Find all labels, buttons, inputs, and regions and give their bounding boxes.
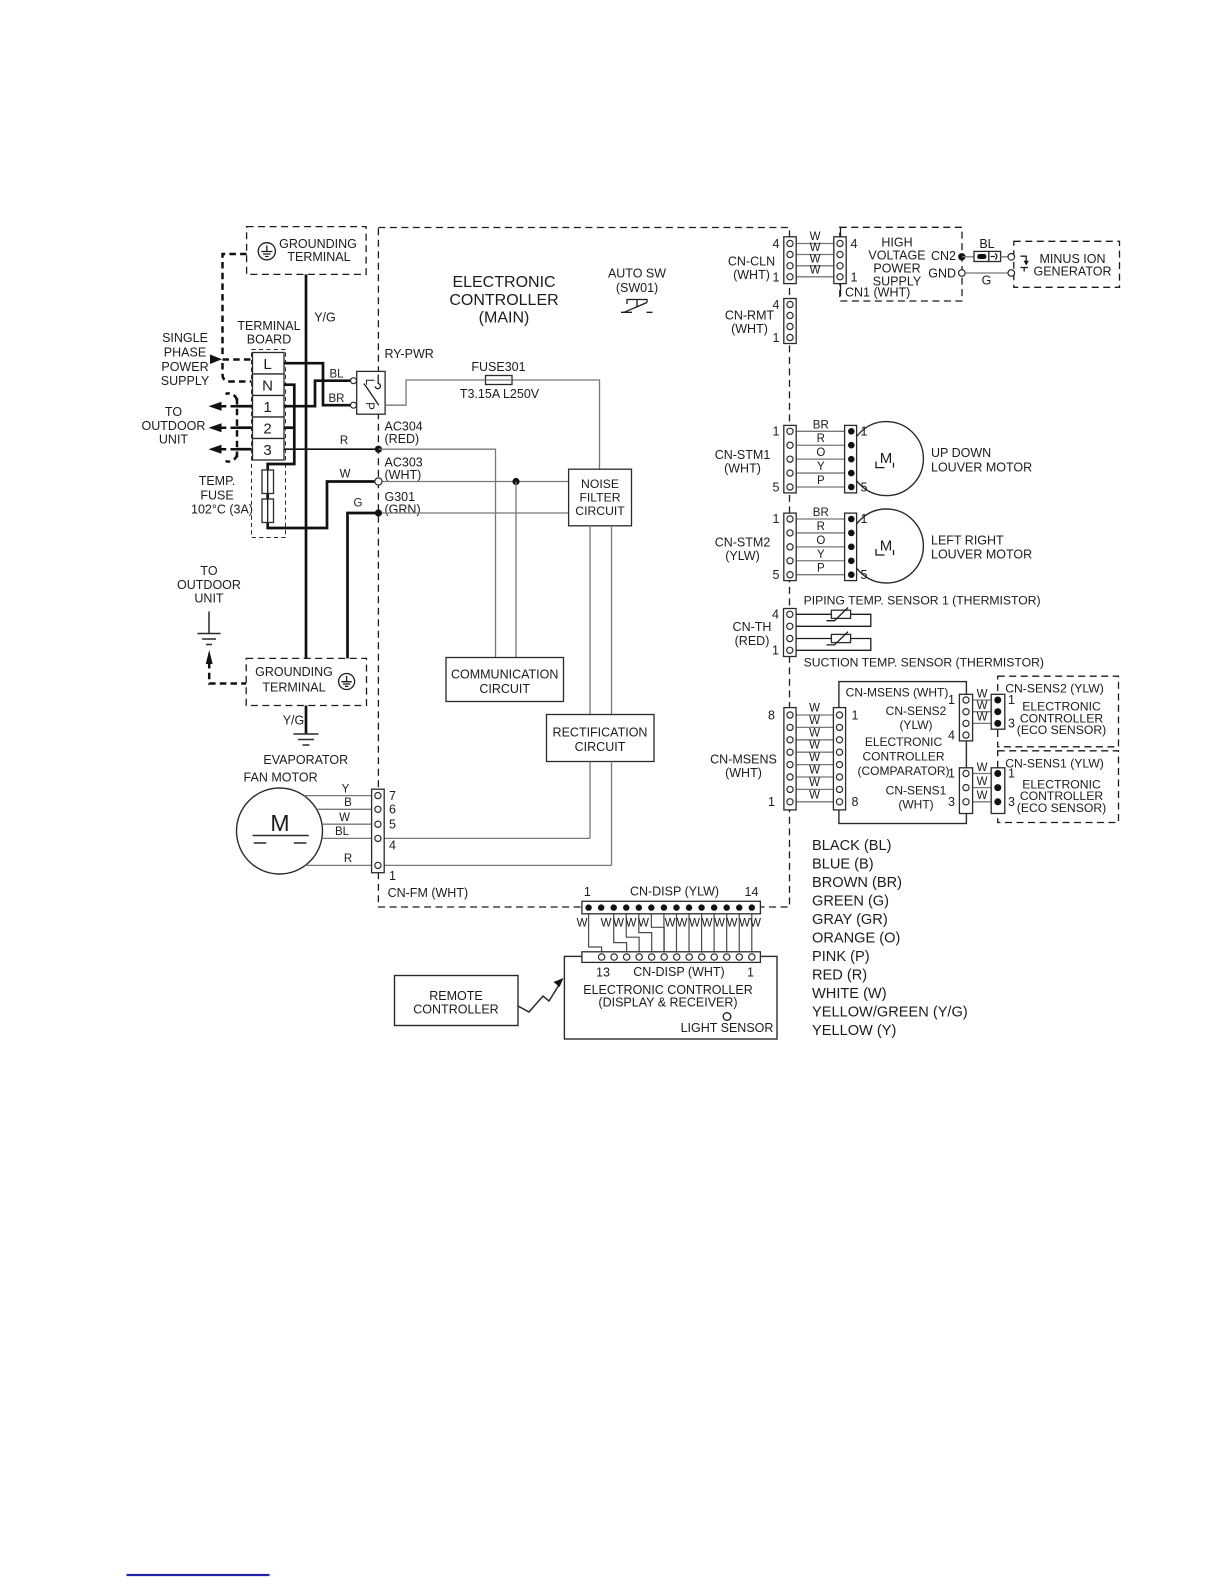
connector CN-SENS2 eco side <box>991 694 1005 729</box>
svg-text:(ECO SENSOR): (ECO SENSOR) <box>1017 723 1106 737</box>
svg-text:(WHT): (WHT) <box>733 268 770 282</box>
svg-text:W: W <box>689 918 700 930</box>
svg-text:W: W <box>809 765 820 777</box>
svg-text:CONTROLLER: CONTROLLER <box>413 1003 498 1017</box>
svg-text:1: 1 <box>389 869 396 883</box>
svg-text:BROWN (BR): BROWN (BR) <box>812 875 902 891</box>
svg-text:(DISPLAY & RECEIVER): (DISPLAY & RECEIVER) <box>598 996 737 1010</box>
svg-text:CN-FM (WHT): CN-FM (WHT) <box>388 886 469 900</box>
wire CN2 to ion connector <box>962 256 974 258</box>
node minus ion pin 1 <box>1008 253 1015 260</box>
svg-text:W: W <box>613 918 624 930</box>
thermistor loop 2 <box>796 639 871 651</box>
svg-text:1: 1 <box>851 271 858 285</box>
svg-text:OUTDOOR: OUTDOOR <box>177 578 241 592</box>
svg-text:M: M <box>270 810 289 836</box>
svg-text:W: W <box>809 777 820 789</box>
svg-text:LOUVER MOTOR: LOUVER MOTOR <box>931 548 1032 562</box>
svg-text:Y/G: Y/G <box>283 714 305 728</box>
svg-text:AUTO SW: AUTO SW <box>608 267 666 281</box>
svg-text:(MAIN): (MAIN) <box>479 310 530 327</box>
wire B fan motor <box>317 808 375 810</box>
svg-text:1: 1 <box>948 766 955 780</box>
svg-text:P: P <box>817 475 825 487</box>
svg-text:L: L <box>263 356 271 373</box>
svg-text:GROUNDING: GROUNDING <box>255 665 333 679</box>
wire stubs terminals 1-3 to cable bundle <box>237 405 252 408</box>
svg-text:W: W <box>977 712 988 724</box>
svg-text:SUPPLY: SUPPLY <box>161 374 210 388</box>
wire GND to generator <box>965 272 1008 274</box>
wires CN-DISP YLW to CN-DISP WHT <box>589 914 602 952</box>
svg-text:TERMINAL: TERMINAL <box>262 681 325 695</box>
svg-text:W: W <box>809 715 820 727</box>
svg-text:CN-TH: CN-TH <box>733 620 772 634</box>
svg-text:W: W <box>638 918 649 930</box>
svg-text:7: 7 <box>389 789 396 803</box>
node AC303 open terminal <box>375 478 382 485</box>
svg-text:(SW01): (SW01) <box>616 281 658 295</box>
svg-text:BOARD: BOARD <box>247 333 291 347</box>
svg-text:FAN MOTOR: FAN MOTOR <box>244 771 318 785</box>
svg-text:5: 5 <box>773 568 780 582</box>
svg-text:CIRCUIT: CIRCUIT <box>575 504 625 518</box>
svg-text:B: B <box>344 797 352 809</box>
svg-text:1: 1 <box>773 424 780 438</box>
svg-text:T3.15A L250V: T3.15A L250V <box>460 387 540 401</box>
svg-text:CN1 (WHT): CN1 (WHT) <box>845 286 910 300</box>
svg-text:4: 4 <box>773 237 780 251</box>
connector CN-SENS2 board side <box>959 694 972 741</box>
svg-text:R: R <box>817 433 825 445</box>
connector CN-DISP (WHT) <box>582 952 761 963</box>
svg-text:3: 3 <box>1008 717 1015 731</box>
svg-text:W: W <box>810 242 821 254</box>
svg-text:CN-MSENS: CN-MSENS <box>710 753 777 767</box>
svg-text:TERMINAL: TERMINAL <box>237 319 300 333</box>
terminal board dashed outline <box>252 350 286 538</box>
wires CN-STM2 to louver motor <box>796 518 848 520</box>
svg-text:W: W <box>340 469 351 481</box>
svg-text:BL: BL <box>979 237 994 251</box>
arrow at supply junction <box>210 355 222 365</box>
wires CN-STM1 to louver motor <box>796 430 848 432</box>
svg-text:W: W <box>977 762 988 774</box>
svg-text:6: 6 <box>389 803 396 817</box>
svg-text:(RED): (RED) <box>735 634 770 648</box>
svg-text:W: W <box>750 918 761 930</box>
svg-text:4: 4 <box>948 728 955 742</box>
svg-text:W: W <box>665 918 676 930</box>
svg-text:W: W <box>702 918 713 930</box>
wire rectification to CN-FM pin 1 <box>611 762 613 866</box>
eco sensor dashed box CN-SENS2 (YLW) <box>998 676 1119 747</box>
mating arrows <box>1021 256 1027 262</box>
svg-text:(WHT): (WHT) <box>724 461 761 475</box>
svg-text:1: 1 <box>773 331 780 345</box>
svg-text:UNIT: UNIT <box>194 592 224 606</box>
svg-text:CONTROLLER: CONTROLLER <box>862 750 944 764</box>
svg-text:TEMP.: TEMP. <box>199 474 236 488</box>
svg-text:1: 1 <box>861 424 868 438</box>
svg-text:EVAPORATOR: EVAPORATOR <box>263 753 348 767</box>
svg-text:CN-DISP (YLW): CN-DISP (YLW) <box>630 885 719 899</box>
svg-text:W: W <box>810 264 821 276</box>
svg-text:14: 14 <box>745 885 759 899</box>
wire dashed from grounding terminal to supply junction <box>223 254 247 355</box>
fuse FUSE301 body <box>486 376 513 385</box>
relay pin BL <box>351 378 357 384</box>
svg-text:POWER: POWER <box>161 360 208 374</box>
wire Y/G grounding terminal 1 to 2 <box>305 274 308 658</box>
svg-text:PINK (P): PINK (P) <box>812 949 870 965</box>
wire G301 to grounding terminal <box>348 513 379 658</box>
svg-text:WHITE (W): WHITE (W) <box>812 986 887 1002</box>
svg-text:ORANGE (O): ORANGE (O) <box>812 931 900 947</box>
svg-text:1: 1 <box>263 399 271 416</box>
svg-text:5: 5 <box>861 568 868 582</box>
electronic controller (main) dashed outline <box>378 228 789 908</box>
svg-text:BLUE (B): BLUE (B) <box>812 857 874 873</box>
svg-text:P: P <box>363 402 375 410</box>
svg-text:VOLTAGE: VOLTAGE <box>868 249 925 263</box>
wire dashed supply to terminal L <box>223 358 252 361</box>
svg-text:TERMINAL: TERMINAL <box>287 250 350 264</box>
svg-text:OUTDOOR: OUTDOOR <box>142 419 206 433</box>
junction dot to communication circuit <box>512 478 519 485</box>
svg-text:O: O <box>816 447 825 459</box>
node AC304 junction dot <box>375 446 382 453</box>
svg-text:4: 4 <box>772 608 779 622</box>
wire N to terminal 2 jumper and temp fuse feed <box>268 385 295 470</box>
wire AC303 to noise filter <box>378 481 568 483</box>
wire relay to noise filter via FUSE301 <box>385 380 599 469</box>
electronic controller (comparator) box <box>839 682 967 824</box>
node GND open circle <box>959 270 966 277</box>
signal zigzag arrow <box>518 983 561 1013</box>
rectification circuit box <box>547 715 655 762</box>
svg-text:4: 4 <box>389 839 396 853</box>
svg-text:LEFT RIGHT: LEFT RIGHT <box>931 534 1004 548</box>
ground symbol in circle <box>258 243 275 260</box>
svg-text:CIRCUIT: CIRCUIT <box>575 740 626 754</box>
wire rectification to CN-FM pin 4 <box>589 762 591 839</box>
svg-text:(RED): (RED) <box>385 432 420 446</box>
wire through temperature fuses to AC303 <box>268 482 379 529</box>
svg-text:BL: BL <box>329 369 344 381</box>
connector CN-DISP (YLW) <box>582 901 761 914</box>
svg-text:P: P <box>817 563 825 575</box>
connector CN-STM1 <box>784 425 796 493</box>
svg-text:1: 1 <box>861 512 868 526</box>
svg-text:W: W <box>977 790 988 802</box>
wires CN-CLN to CN1 <box>796 243 834 245</box>
svg-text:SINGLE: SINGLE <box>162 331 208 345</box>
relay RY-PWR body <box>357 371 385 414</box>
svg-text:3: 3 <box>948 795 955 809</box>
svg-text:M: M <box>880 450 893 467</box>
svg-text:W: W <box>809 703 820 715</box>
svg-text:GREEN (G): GREEN (G) <box>812 894 889 910</box>
svg-text:(COMPARATOR): (COMPARATOR) <box>858 764 950 778</box>
svg-text:1: 1 <box>852 709 859 723</box>
connector CN-STM2 <box>784 513 796 581</box>
svg-text:5: 5 <box>389 818 396 832</box>
svg-text:SUCTION TEMP. SENSOR (THERMIST: SUCTION TEMP. SENSOR (THERMISTOR) <box>804 656 1044 670</box>
svg-text:Y: Y <box>342 784 350 796</box>
ion feed connector symbol <box>974 251 1001 261</box>
relay pin BR <box>351 402 357 408</box>
svg-text:GROUNDING: GROUNDING <box>279 237 357 251</box>
wire Y fan motor <box>304 795 375 797</box>
svg-text:UNIT: UNIT <box>159 433 189 447</box>
svg-text:(YLW): (YLW) <box>899 718 932 732</box>
electronic controller (display & receiver) box <box>564 956 777 1039</box>
svg-text:CN-SENS1 (YLW): CN-SENS1 (YLW) <box>1005 756 1104 770</box>
svg-text:CONTROLLER: CONTROLLER <box>449 292 558 309</box>
grounding terminal 2 dashed box <box>246 658 366 705</box>
svg-text:102°C (3A): 102°C (3A) <box>191 503 253 517</box>
louver motor circle CN-STM2 <box>849 509 923 583</box>
remote controller box <box>395 976 519 1026</box>
svg-text:POWER: POWER <box>873 262 920 276</box>
svg-text:1: 1 <box>772 644 779 658</box>
svg-text:W: W <box>809 740 820 752</box>
wire noise filter to rectification 2 <box>611 526 613 715</box>
svg-text:(YLW): (YLW) <box>725 549 760 563</box>
svg-text:YELLOW (Y): YELLOW (Y) <box>812 1023 896 1039</box>
relay contact <box>375 375 380 389</box>
svg-text:W: W <box>809 789 820 801</box>
svg-text:CIRCUIT: CIRCUIT <box>479 682 530 696</box>
svg-text:W: W <box>577 918 588 930</box>
cable bundle dashed <box>236 398 239 458</box>
svg-text:1: 1 <box>773 512 780 526</box>
svg-text:GENERATOR: GENERATOR <box>1033 265 1111 279</box>
svg-text:CN-MSENS (WHT): CN-MSENS (WHT) <box>846 686 949 700</box>
connector CN-MSENS (board) <box>833 708 845 810</box>
svg-text:3: 3 <box>1008 795 1015 809</box>
svg-text:W: W <box>809 752 820 764</box>
svg-text:1: 1 <box>768 795 775 809</box>
svg-text:1: 1 <box>948 693 955 707</box>
svg-text:FILTER: FILTER <box>579 491 620 505</box>
CN-SENS1 connectors <box>973 773 992 775</box>
svg-text:CN-STM2: CN-STM2 <box>715 536 771 550</box>
wire ion connector to generator <box>1001 256 1008 258</box>
footer rule <box>127 1574 270 1576</box>
svg-text:W: W <box>977 776 988 788</box>
svg-text:YELLOW/GREEN (Y/G): YELLOW/GREEN (Y/G) <box>812 1005 968 1021</box>
svg-text:GRAY (GR): GRAY (GR) <box>812 912 888 928</box>
wire BL CN-FM pin4 to rectification <box>381 837 590 839</box>
connector CN-MSENS (left) <box>784 708 796 810</box>
wire W fan motor <box>322 823 375 825</box>
svg-text:G: G <box>982 274 992 288</box>
svg-text:BL: BL <box>335 826 350 838</box>
svg-text:(WHT): (WHT) <box>731 322 768 336</box>
svg-text:8: 8 <box>852 795 859 809</box>
svg-text:RY-PWR: RY-PWR <box>385 347 434 361</box>
svg-text:CN-CLN: CN-CLN <box>728 255 775 269</box>
wire terminal 1 to relay BL pin <box>284 381 351 407</box>
wire G301 to noise filter <box>378 512 568 514</box>
noise filter circuit box <box>569 469 632 526</box>
svg-text:W: W <box>677 918 688 930</box>
svg-text:4: 4 <box>851 237 858 251</box>
wires CN-SENS2 to eco sensor <box>973 699 992 701</box>
svg-text:W: W <box>727 918 738 930</box>
svg-text:BLACK (BL): BLACK (BL) <box>812 838 891 854</box>
motor connector CN-STM1 <box>845 425 857 493</box>
terminal cells L N 1 2 3 <box>253 353 285 375</box>
svg-text:COMMUNICATION: COMMUNICATION <box>451 668 558 682</box>
ground symbol in circle 2 <box>339 674 355 690</box>
motor connector CN-STM2 <box>845 513 857 581</box>
connector CN-TH <box>784 609 797 657</box>
svg-text:PHASE: PHASE <box>164 346 206 360</box>
wire BL fan motor <box>322 837 375 839</box>
relay blade <box>364 384 379 406</box>
connector CN-FM <box>372 789 385 873</box>
svg-text:W: W <box>977 700 988 712</box>
svg-text:2: 2 <box>263 420 271 437</box>
svg-text:FUSE: FUSE <box>200 489 233 503</box>
svg-text:HIGH: HIGH <box>881 236 912 250</box>
svg-text:CN-SENS1: CN-SENS1 <box>886 784 947 798</box>
svg-text:LOUVER MOTOR: LOUVER MOTOR <box>931 460 1032 474</box>
temperature fuse body 1 <box>262 470 274 494</box>
svg-text:FUSE301: FUSE301 <box>471 360 525 374</box>
svg-text:(WHT): (WHT) <box>725 766 762 780</box>
svg-text:(WHT): (WHT) <box>385 468 422 482</box>
svg-text:5: 5 <box>861 481 868 495</box>
svg-text:W: W <box>714 918 725 930</box>
svg-text:R: R <box>340 435 348 447</box>
svg-text:1: 1 <box>747 966 754 980</box>
svg-text:BR: BR <box>813 507 829 519</box>
wire R fan motor <box>305 864 375 866</box>
wire AC304 to communication circuit <box>378 449 495 657</box>
fan motor M1 circle <box>237 788 323 874</box>
thermistor RT1 symbol <box>831 610 850 618</box>
svg-text:W: W <box>626 918 637 930</box>
svg-text:W: W <box>601 918 612 930</box>
svg-text:1: 1 <box>773 271 780 285</box>
svg-text:BR: BR <box>813 419 829 431</box>
svg-text:CN-RMT: CN-RMT <box>725 309 775 323</box>
dashed arrow to grounding terminal 2 <box>206 650 213 664</box>
svg-text:TO: TO <box>200 564 217 578</box>
svg-text:(ECO SENSOR): (ECO SENSOR) <box>1017 801 1106 815</box>
temperature fuse body 2 <box>262 499 274 523</box>
switch SW01 symbol <box>627 300 647 308</box>
earth ground symbol (evaporator) <box>294 734 319 745</box>
louver motor circle CN-STM1 <box>849 422 923 496</box>
svg-text:GND: GND <box>928 267 956 281</box>
connector CN1 <box>840 228 842 237</box>
svg-text:N: N <box>262 377 273 394</box>
svg-text:G: G <box>354 498 363 510</box>
svg-text:LIGHT SENSOR: LIGHT SENSOR <box>681 1021 774 1035</box>
svg-text:REMOTE: REMOTE <box>429 989 482 1003</box>
wire grounding terminal 2 to earth <box>305 706 308 735</box>
svg-text:ELECTRONIC: ELECTRONIC <box>452 274 555 291</box>
wires CN-MSENS <box>796 714 833 716</box>
svg-text:13: 13 <box>596 966 610 980</box>
connector CN-CLN <box>784 237 796 284</box>
svg-text:Y: Y <box>817 461 825 473</box>
svg-text:O: O <box>816 535 825 547</box>
wire R terminal 3 to AC304 node <box>284 448 378 450</box>
wire noise filter to rectification 1 <box>589 526 591 715</box>
svg-text:UP DOWN: UP DOWN <box>931 446 991 460</box>
svg-text:R: R <box>344 853 352 865</box>
minus ion generator dashed box (drawn early) <box>1014 241 1120 287</box>
wire L to relay BR pin <box>284 363 351 405</box>
svg-text:W: W <box>977 688 988 700</box>
svg-text:W: W <box>809 727 820 739</box>
svg-text:8: 8 <box>768 709 775 723</box>
svg-text:TO: TO <box>165 405 182 419</box>
eco sensor dashed box CN-SENS1 <box>998 751 1119 823</box>
svg-text:W: W <box>739 918 750 930</box>
wire dashed supply to terminal N <box>223 363 252 382</box>
svg-text:Y: Y <box>817 549 825 561</box>
svg-text:W: W <box>339 812 350 824</box>
svg-text:NOISE: NOISE <box>581 477 619 491</box>
earth ground symbol (outdoor) <box>198 612 221 645</box>
wire R CN-FM pin1 to rectification <box>381 864 612 866</box>
node minus ion pin 2 <box>1008 270 1015 277</box>
node CN2 dot <box>958 253 965 260</box>
svg-text:M: M <box>880 538 893 555</box>
svg-text:BR: BR <box>329 393 345 405</box>
svg-text:5: 5 <box>773 481 780 495</box>
svg-text:CN2: CN2 <box>931 249 956 263</box>
svg-text:RED (R): RED (R) <box>812 968 867 984</box>
node G301 junction dot <box>375 509 382 516</box>
svg-text:R: R <box>817 521 825 533</box>
svg-text:PIPING TEMP. SENSOR 1 (THERMIS: PIPING TEMP. SENSOR 1 (THERMISTOR) <box>804 594 1041 608</box>
thermistor loop 1 <box>796 614 871 626</box>
svg-text:CN-SENS2 (YLW): CN-SENS2 (YLW) <box>1005 682 1104 696</box>
connector CN-RMT <box>784 299 796 344</box>
svg-text:ELECTRONIC: ELECTRONIC <box>865 735 943 749</box>
svg-text:3: 3 <box>263 442 271 459</box>
svg-text:CN-SENS2: CN-SENS2 <box>886 704 947 718</box>
svg-text:(WHT): (WHT) <box>898 798 933 812</box>
svg-text:RECTIFICATION: RECTIFICATION <box>553 726 648 740</box>
dashed arrows to outdoor unit <box>221 405 237 408</box>
svg-text:1: 1 <box>584 885 591 899</box>
grounding terminal (top) dashed box <box>247 227 367 275</box>
svg-text:Y/G: Y/G <box>314 311 336 325</box>
communication circuit box <box>446 658 564 702</box>
svg-text:CN-DISP (WHT): CN-DISP (WHT) <box>633 965 724 979</box>
svg-text:CN-STM1: CN-STM1 <box>715 448 771 462</box>
thermistor RT2 symbol <box>831 634 850 642</box>
high voltage power supply dashed box <box>840 227 962 301</box>
svg-text:(GRN): (GRN) <box>385 503 421 517</box>
light sensor circle <box>723 1013 731 1021</box>
